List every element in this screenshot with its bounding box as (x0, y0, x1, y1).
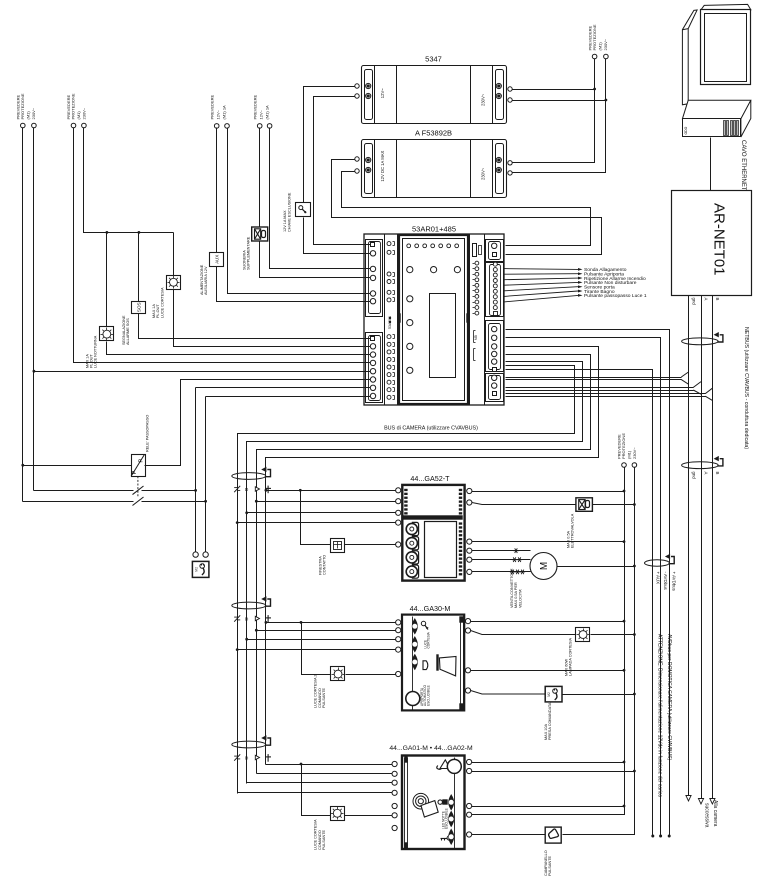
terminal pair M1 230V b (71, 123, 86, 128)
wire camera bus 3 (247, 362, 583, 784)
fan coil motor (530, 553, 557, 580)
wire rs485 B (506, 388, 713, 400)
GA01 left terminals (392, 761, 397, 830)
wire lamp2 down (107, 342, 371, 355)
svg-text:MAX 60W: MAX 60W (564, 658, 568, 676)
svg-text:Pulsante passopasso Luce 1: Pulsante passopasso Luce 1 (584, 293, 647, 299)
wire fan speed 2 (472, 557, 531, 562)
wire netbus B (712, 296, 714, 799)
svg-text:P: P (139, 459, 145, 463)
wire camera bus 2 (257, 355, 591, 774)
GA52 left terminals (396, 488, 401, 547)
valve box top (243, 227, 268, 270)
wire GA52 in1 (266, 490, 396, 492)
svg-text:12V~: 12V~ (216, 109, 221, 119)
terminal PSU1 left 1 (355, 84, 359, 88)
junction GA30 tap (300, 621, 303, 624)
svg-text:ALLARME SOS: ALLARME SOS (126, 318, 130, 345)
wire GA01 in4 (238, 792, 393, 794)
wire socket h2 (23, 501, 206, 503)
svg-text:53AR01+485: 53AR01+485 (412, 225, 456, 234)
junction PSU1 N (605, 99, 608, 102)
svg-text:gnd: gnd (691, 298, 696, 306)
wire GA01 aux (472, 806, 625, 808)
svg-text:12V 1A MAX: 12V 1A MAX (283, 210, 287, 232)
svg-text:M2: M2 (194, 567, 198, 572)
svg-text:230V~: 230V~ (31, 107, 36, 119)
label CAVO ETHERNET (740, 140, 746, 191)
svg-text:230V~: 230V~ (603, 38, 608, 50)
wire GA52 in3 (247, 512, 396, 514)
controller netbus terminals (492, 375, 497, 395)
svg-text:PROTEZIONE: PROTEZIONE (592, 24, 597, 50)
svg-text:(M1): (M1) (76, 111, 81, 120)
svg-text:PREVEDERE: PREVEDERE (210, 94, 215, 119)
svg-text:MAX 1A: MAX 1A (85, 354, 89, 368)
wire rs485 gnd (506, 372, 689, 384)
svg-text:M2: M2 (547, 692, 551, 697)
label -AVDbus (663, 572, 668, 591)
junction GA01 tap (300, 763, 303, 766)
twisted pair AVD (645, 554, 675, 567)
svg-text:Alla camera: Alla camera (712, 800, 718, 827)
svg-text:230V~: 230V~ (632, 447, 637, 459)
label 230V right (617, 433, 638, 459)
controller left block top (366, 240, 383, 317)
wire GA30 plug a (471, 691, 546, 695)
wire GA52 in4 (238, 522, 396, 524)
wire camera bus 4 (238, 366, 575, 794)
terminal pair M1 12V b (257, 124, 272, 129)
wire 12VDC out2 (342, 172, 591, 246)
monitor display (682, 4, 750, 104)
svg-text:ESCLUDIBILE: ESCLUDIBILE (426, 685, 430, 706)
junction PSU1 L (593, 88, 596, 91)
switch contact 2 (133, 497, 144, 506)
wire PSU1 L feed (513, 89, 595, 91)
junction bus2 GA52 (255, 500, 258, 503)
label NETBUS (743, 327, 749, 449)
GA01 paddle 1 (449, 795, 454, 810)
svg-text:FINESTRA: FINESTRA (318, 556, 322, 575)
wire ethernet (710, 138, 712, 191)
svg-text:ODO: ODO (684, 126, 688, 134)
controller right block netbus (486, 374, 504, 402)
terminal PSU1 right 1 (508, 87, 512, 91)
svg-text:RELE' PASSOPASSO: RELE' PASSOPASSO (146, 415, 150, 452)
wire GA01 L (472, 762, 625, 764)
wire P4a (259, 128, 261, 228)
svg-text:COMANDO: COMANDO (318, 830, 322, 850)
twisted pair bus GA52 (232, 467, 271, 480)
arrow netbus A (698, 799, 703, 805)
svg-text:CAMPANELLO: CAMPANELLO (544, 850, 548, 876)
input wire Tirante Bagno (504, 289, 615, 297)
controller left block bottom (366, 333, 383, 403)
arrow netbus gnd (686, 796, 691, 802)
label 44...GA01-M (389, 745, 473, 752)
twisted pair netbus 2 (682, 456, 723, 469)
svg-text:PROTEZIONE: PROTEZIONE (71, 93, 76, 119)
wire GA30 lamp a (471, 631, 576, 635)
svg-text:PROTEZIONE: PROTEZIONE (20, 93, 25, 119)
wire P3a down (217, 267, 371, 302)
thermostat lcd (425, 522, 457, 578)
svg-text:(M1) 1A: (M1) 1A (222, 105, 227, 120)
svg-text:LUCE NOTTURNA: LUCE NOTTURNA (94, 335, 98, 368)
terminal PSU1 left 2 (355, 94, 359, 98)
input wire Pulsante Non disturbare (504, 280, 637, 286)
label +AVDbus (672, 572, 677, 592)
controller input terminals (493, 262, 497, 315)
wire GA30 in2 (257, 630, 396, 632)
svg-text:A: A (704, 472, 709, 475)
GA01 alarm icon (437, 759, 462, 773)
label 12V M1 pair3 (210, 94, 227, 119)
label gnd mid (691, 472, 696, 480)
GA30 right terminals (465, 619, 470, 694)
junction N GA01 (633, 770, 636, 773)
label 230V M1 pair1 (16, 93, 37, 119)
wire GA01 in3 (247, 782, 393, 784)
junction GA52 tap (299, 489, 302, 492)
svg-text:44...GA30-M: 44...GA30-M (410, 604, 451, 613)
label A mid (704, 472, 709, 475)
input wire Pulsante Apriporta (504, 271, 624, 277)
GA01 key2 (441, 836, 452, 841)
controller button column (407, 296, 413, 374)
svg-text:MB: MB (474, 335, 478, 340)
controller led row (407, 244, 459, 248)
wire 230V L right (471, 468, 625, 815)
label alla camera (704, 800, 718, 828)
controller right block bus (486, 321, 504, 372)
wire GA01 lamp tap (302, 765, 331, 816)
svg-text:AR-NET01: AR-NET01 (711, 203, 728, 276)
relay link dashed (137, 476, 139, 497)
svg-text:PROTEZIONE: PROTEZIONE (621, 433, 626, 459)
bus marks GA01 (234, 754, 271, 762)
controlled socket (192, 561, 209, 577)
controller button row (407, 267, 461, 273)
GA01 paddle 2 (449, 812, 454, 827)
junction L GA52 (623, 490, 626, 493)
svg-text:CORTESIA: CORTESIA (427, 631, 431, 648)
terminator +AUX (651, 835, 654, 838)
controller tab right (467, 314, 470, 323)
wire GA01 in1 (266, 764, 393, 766)
GA01 speaker icon (413, 793, 438, 817)
wire 230V N (513, 59, 606, 173)
GA01 mic icon (438, 800, 448, 805)
wire socket v1 (195, 388, 197, 552)
svg-text:LUCE CORTESIA: LUCE CORTESIA (160, 287, 164, 318)
input wire Pulsante passopasso Luce 1 (504, 293, 647, 302)
wire GA30 lamp b (591, 634, 635, 636)
module GA01 body (402, 756, 465, 850)
svg-text:AUX: AUX (214, 255, 219, 264)
svg-text:ATTENZIONE: Dimensionare l'ali: ATTENZIONE: Dimensionare l'alimentazione… (656, 634, 662, 797)
controller inner left strip (385, 235, 398, 406)
svg-text:MAX 0.5A: MAX 0.5A (566, 530, 570, 548)
wire GA52 valve a (472, 503, 576, 505)
wire P3b (228, 128, 371, 294)
svg-text:BUS di CAMERA (utilizzare CVAV: BUS di CAMERA (utilizzare CVAVBUS) (384, 426, 478, 432)
junction N lamp (633, 633, 636, 636)
svg-text:12V DC 1A MAX: 12V DC 1A MAX (380, 150, 385, 181)
junction aux GA01 (623, 805, 626, 808)
bus marks GA30 (234, 615, 271, 623)
svg-text:(M1): (M1) (627, 450, 632, 459)
wire 12VDC out1 (332, 160, 602, 255)
wire relay to controller (145, 380, 371, 466)
svg-text:A: A (704, 298, 709, 301)
label 44...GA30-M (410, 604, 451, 613)
junction L2 GA52 (623, 540, 626, 543)
svg-text:MAX 1A: MAX 1A (152, 304, 156, 318)
svg-text:12V~: 12V~ (259, 109, 264, 119)
svg-text:(M1): (M1) (26, 111, 31, 120)
controller left terminals top (370, 243, 375, 304)
wire fan speed 3 (472, 570, 531, 575)
wire 230V L (513, 59, 595, 163)
GA30 key icon (421, 621, 428, 629)
svg-text:M: M (539, 562, 550, 570)
thermostat GA52 body (402, 485, 464, 581)
junction socket1 (194, 489, 197, 492)
svg-text:12V~: 12V~ (380, 88, 385, 98)
terminal PSU2 right 2 (508, 171, 512, 175)
svg-text:CONTATTO: CONTATTO (323, 555, 327, 575)
controller bus terminals (492, 326, 497, 371)
GA01 right terminals (467, 759, 472, 837)
label AVDbus DOMOTICA (666, 634, 672, 760)
terminal PSU2 right 1 (508, 161, 512, 165)
svg-text:PULSANTE: PULSANTE (322, 829, 326, 850)
svg-text:ELETTROVALVOLA: ELETTROVALVOLA (571, 513, 575, 548)
wire TA to GA52 (345, 544, 396, 546)
svg-text:+ AUX: + AUX (655, 572, 660, 585)
svg-text:PREVEDERE: PREVEDERE (253, 94, 258, 119)
junction bus1 GA52 (265, 489, 268, 492)
wire GA01 lamp in (345, 815, 393, 817)
wire PSU1 N feed (513, 100, 606, 102)
svg-text:LUCE CORTESIA 2: LUCE CORTESIA 2 (314, 675, 318, 708)
wire P4b (270, 128, 371, 269)
junction bus3 GA52 (245, 511, 248, 514)
svg-text:230V~: 230V~ (481, 167, 486, 180)
controlled socket camera (544, 686, 562, 740)
label B mid (715, 472, 720, 475)
wire lamp1 up (173, 233, 175, 276)
controller inner right strip (470, 235, 485, 406)
junction socket2 (204, 500, 207, 503)
power supply transformer 5347 (362, 55, 507, 124)
svg-text:PULSANTE: PULSANTE (322, 687, 326, 708)
GA01 text block (442, 808, 449, 829)
label A top (704, 298, 709, 301)
wire GA30 L (471, 621, 625, 623)
svg-text:SOS: SOS (136, 302, 141, 312)
aux supply box (200, 253, 224, 296)
wire relay feed (23, 465, 132, 467)
wire GA52 L2 (472, 541, 625, 543)
input wire Ripetizione Allarme Incendio (504, 276, 646, 282)
svg-text:- AVDbus: - AVDbus (663, 572, 668, 591)
svg-text:AUSILIARIA 12V: AUSILIARIA 12V (204, 266, 208, 295)
junction bus2 GA30 (255, 629, 258, 632)
controller tab left (398, 314, 401, 323)
svg-text:A F53892B: A F53892B (415, 129, 452, 138)
label 12V M1 pair4 (253, 94, 270, 119)
wire GA01 bell a (472, 834, 546, 836)
svg-text:+ AVDbus: + AVDbus (672, 572, 677, 592)
wire GA52 valve b (593, 504, 635, 506)
svg-text:(M1): (M1) (597, 42, 602, 51)
wire 230V N right (563, 468, 635, 835)
svg-text:P: P (132, 470, 138, 474)
svg-text:230V~: 230V~ (481, 93, 486, 106)
junction L GA01 (623, 761, 626, 764)
wire motor N (558, 566, 635, 568)
wire sos down (139, 314, 371, 339)
GA30 knob (406, 692, 420, 706)
twisted pair bus GA01 (232, 735, 271, 748)
wire GA30 lamp in (346, 674, 396, 676)
terminal pair M1 230V a (21, 123, 37, 128)
controller lcd window (430, 294, 456, 378)
wire rs485 A (506, 382, 702, 395)
svg-text:MAX 10A: MAX 10A (544, 723, 548, 740)
twisted pair bus GA30 (232, 596, 271, 609)
svg-text:ESCLUDIBILE: ESCLUDIBILE (445, 808, 449, 829)
svg-text:successiva: successiva (704, 803, 710, 828)
wire GA01 in2 (257, 773, 393, 775)
terminal pair 230V near monitor (592, 54, 608, 59)
wire camera bus 1 (266, 347, 599, 765)
wire socket h1 (34, 490, 196, 492)
wire P3a (216, 128, 218, 253)
wire 12V PSU1-1 (304, 87, 355, 203)
bus marks GA52 (234, 486, 271, 494)
controller left terminals bottom (370, 337, 375, 399)
wire GA30 L2 (471, 670, 625, 672)
svg-text:NETBUS (utilizzare CVAVBUS - c: NETBUS (utilizzare CVAVBUS - conduttura … (743, 327, 749, 449)
label 44...GA52-T (410, 474, 450, 483)
controller right block power (486, 240, 504, 262)
electrovalve (566, 498, 592, 548)
wire netbus gnd (688, 296, 690, 796)
relay passo passo (131, 415, 149, 477)
svg-text:COMANDO: COMANDO (318, 688, 322, 708)
terminal PSU2 left 1 (355, 157, 359, 161)
GA30 paddle 1 (412, 619, 417, 634)
GA01 paddle 3 (449, 829, 454, 844)
wire -AVDbus (506, 338, 661, 837)
wire GA30 in4 (238, 649, 396, 651)
GA30 paddle 3 (412, 655, 417, 670)
svg-text:VELOCITA': VELOCITA' (518, 589, 522, 608)
sos indicator (122, 302, 146, 346)
junction lamp2 tap (106, 231, 109, 234)
junction N motor (633, 565, 636, 568)
label ventilconvettore (510, 568, 522, 608)
wire GA52 L (472, 491, 625, 493)
junction L GA30 (623, 620, 626, 623)
wire GA52 in2 (257, 501, 396, 503)
wire mains P1b (33, 128, 35, 491)
terminal pair M1 12V a (214, 124, 229, 129)
wire P4a down (260, 242, 371, 278)
junction P1b aux (33, 370, 36, 373)
wire GA30 plug b (563, 694, 635, 696)
arrow netbus B (710, 799, 715, 805)
wire 12V PSU1-2 (314, 97, 371, 245)
svg-text:AVDbus per DOMOTICA CAMERA (ut: AVDbus per DOMOTICA CAMERA (utilizzare C… (666, 634, 672, 760)
terminal socket 1 (193, 552, 198, 557)
GA30 left terminals (396, 620, 401, 677)
key switch box (283, 192, 311, 232)
lamp cortesia (564, 628, 589, 677)
junction N plug (633, 693, 636, 696)
svg-text:gnd: gnd (691, 472, 696, 480)
module GA30 body (402, 615, 464, 711)
input wire Sonda Allagamento (504, 267, 627, 273)
label BUS di CAMERA (384, 426, 478, 432)
wire t5 long (34, 371, 371, 373)
svg-text:44...GA01-M • 44...GA02-M: 44...GA01-M • 44...GA02-M (389, 745, 473, 752)
label gnd top (691, 298, 696, 306)
svg-text:PRESA COMANDATA: PRESA COMANDATA (548, 702, 552, 740)
label 230V M1 pair2 (66, 93, 87, 119)
AR-NET01 web server (672, 191, 752, 296)
GA30 paddle 2 (412, 637, 417, 652)
wire netbus A (701, 296, 703, 799)
junction P1a relay (21, 464, 24, 467)
label 53AR01+485 (412, 225, 456, 234)
svg-text:PULSANTE: PULSANTE (548, 855, 552, 876)
GA30 icon small (423, 661, 428, 670)
switch contact 1 (133, 486, 144, 495)
controller 53AR01+485 body (364, 234, 504, 405)
terminal socket 2 (203, 552, 208, 557)
junction bus3 GA30 (245, 638, 248, 641)
svg-text:SUPPLEMENTARE: SUPPLEMENTARE (247, 236, 251, 270)
thermostat knobs (406, 522, 418, 578)
label ATTENZIONE (656, 634, 662, 797)
wire mains P2b (84, 128, 174, 233)
wire GA30 in1 (266, 622, 396, 624)
wire GA01 N (472, 771, 635, 773)
svg-text:B: B (715, 472, 720, 475)
wire 12V key to controller (304, 218, 371, 254)
svg-text:LUCE CORTESIA: LUCE CORTESIA (314, 819, 318, 850)
lamp comando GA01 (314, 807, 345, 851)
campanello box (544, 827, 561, 876)
computer base unit (682, 100, 750, 137)
wire GA30 lamp tap (302, 623, 331, 675)
junction sos tap (138, 231, 141, 234)
label +AUX (655, 572, 660, 585)
controller right power terminals (492, 243, 497, 256)
wire lamp1 down (174, 290, 371, 347)
label 230V M1 pair5 (587, 24, 608, 50)
wire socket t8 (206, 396, 371, 398)
wire GA30 in3 (247, 639, 396, 641)
terminal pair 230V right (622, 463, 637, 468)
terminator -AVDbus (659, 835, 662, 838)
svg-text:44...GA52-T: 44...GA52-T (410, 474, 450, 483)
